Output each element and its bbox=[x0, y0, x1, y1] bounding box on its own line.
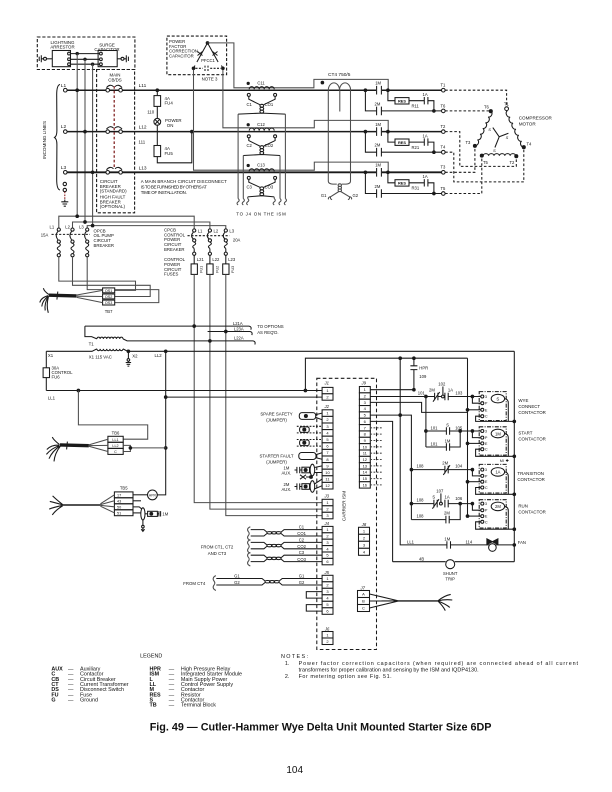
svg-text:CONTACTOR: CONTACTOR bbox=[517, 477, 544, 482]
PFCC feed row1 (apex) bbox=[208, 43, 389, 89]
junction dots phase taps bbox=[76, 89, 79, 92]
terminal block TB6 bbox=[108, 431, 123, 455]
svg-text:G2: G2 bbox=[353, 193, 359, 198]
svg-text:S: S bbox=[432, 495, 435, 500]
svg-text:108: 108 bbox=[417, 498, 425, 503]
svg-text:4B: 4B bbox=[419, 556, 424, 561]
svg-text:101: 101 bbox=[418, 391, 426, 396]
resistor R31 bbox=[388, 172, 395, 183]
connector J6 bbox=[322, 626, 333, 644]
svg-text:T6: T6 bbox=[484, 105, 490, 110]
wire C contactor 1M to LL2 rail bbox=[476, 449, 515, 456]
coil 2M return bbox=[505, 506, 509, 529]
junction dots PFCC feeds on phases bbox=[387, 89, 390, 92]
label FROM CT4 bbox=[183, 581, 206, 586]
svg-text:C: C bbox=[362, 606, 365, 611]
TB6 cable claw bbox=[46, 437, 60, 461]
branch to 2M row3 bbox=[365, 172, 376, 193]
svg-text:P: P bbox=[485, 474, 488, 478]
CT4 primary loop bbox=[328, 90, 350, 181]
svg-text:TB7: TB7 bbox=[105, 309, 113, 314]
svg-text:ARRESTOR: ARRESTOR bbox=[50, 44, 74, 49]
svg-text:TRIP: TRIP bbox=[445, 576, 455, 581]
contact 2M row2 bbox=[375, 143, 382, 157]
terminal T2 bbox=[442, 130, 446, 134]
transformer T1 secondary leads / wire X1-115VAC bbox=[46, 349, 514, 351]
svg-text:OS2: OS2 bbox=[105, 295, 112, 299]
svg-text:CONTACTOR: CONTACTOR bbox=[518, 437, 545, 442]
connector J4 bbox=[322, 521, 333, 565]
svg-text:10: 10 bbox=[363, 444, 368, 449]
svg-text:X1 115 VAC: X1 115 VAC bbox=[89, 355, 112, 360]
feed wire pole3 bbox=[87, 226, 226, 229]
connector J3 bbox=[322, 494, 333, 519]
svg-text:2M: 2M bbox=[429, 388, 435, 393]
wire pair C12 to J4 bbox=[243, 156, 280, 199]
2M aux contact bbox=[282, 482, 292, 492]
coil 1A return bbox=[505, 472, 509, 494]
lightning arrestor / surge capacitor enclosure (dashed) bbox=[37, 37, 135, 70]
trip tie (red dashed) bbox=[113, 86, 115, 168]
label CONTROL POWER CIRCUIT FUSES bbox=[164, 257, 186, 276]
svg-text:START: START bbox=[518, 431, 532, 436]
svg-text:C: C bbox=[485, 486, 488, 490]
CT4 secondary bbox=[328, 182, 350, 185]
motor winding T5-T2 bbox=[483, 154, 515, 156]
svg-text:TO J4 ON THE ISM: TO J4 ON THE ISM bbox=[236, 212, 286, 217]
svg-text:C: C bbox=[114, 450, 117, 454]
wire E contactor S bbox=[468, 409, 481, 411]
wires OPCB to TB7 bbox=[59, 257, 136, 291]
label WYE CONNECT CONTACTOR bbox=[518, 398, 545, 415]
svg-text:10: 10 bbox=[325, 470, 330, 475]
svg-text:LL2: LL2 bbox=[112, 444, 118, 448]
svg-text:T1: T1 bbox=[504, 101, 510, 106]
svg-text:1.: 1. bbox=[285, 661, 290, 667]
wire 101 row A (J9-2) bbox=[370, 396, 441, 398]
wire 1A to T5 line bbox=[428, 183, 434, 194]
svg-text:15: 15 bbox=[363, 476, 368, 481]
interconnect wires arrestor-surge bbox=[70, 54, 99, 65]
svg-text:CO1: CO1 bbox=[265, 102, 274, 107]
label COMPRESSOR MOTOR bbox=[519, 116, 553, 127]
svg-text:CAPACITOR: CAPACITOR bbox=[169, 53, 194, 58]
svg-text:103: 103 bbox=[455, 391, 463, 396]
svg-text:T1: T1 bbox=[89, 342, 95, 347]
svg-text:(OPTIONAL): (OPTIONAL) bbox=[100, 204, 126, 209]
wire FU5 return to L2 bbox=[157, 133, 192, 163]
motor node T2 bbox=[515, 155, 518, 158]
svg-text:C: C bbox=[485, 448, 488, 452]
svg-text:(JUMPER): (JUMPER) bbox=[266, 418, 287, 423]
svg-text:L23A: L23A bbox=[234, 327, 244, 332]
contact 2M (NC) row A bbox=[433, 392, 440, 402]
svg-text:S: S bbox=[446, 423, 449, 428]
connector J1 bbox=[322, 381, 333, 401]
option jumper rows 5-6 (dashed) bbox=[297, 440, 322, 447]
contact 1A row3 bbox=[409, 179, 428, 186]
svg-text:L12: L12 bbox=[139, 125, 147, 131]
OPCB trip tie dashed + 15A bbox=[52, 233, 91, 235]
twisted pair C2/CO2 to J4 bbox=[248, 537, 323, 553]
connector J9 bbox=[359, 381, 370, 489]
svg-text:Terminal Block: Terminal Block bbox=[181, 703, 216, 709]
svg-text:J7: J7 bbox=[360, 586, 366, 591]
legend bbox=[51, 653, 242, 708]
svg-text:Power factor correction capaci: Power factor correction capacitors (when… bbox=[299, 661, 579, 667]
label OPCB OIL PUMP CIRCUIT BREAKER bbox=[94, 228, 115, 247]
svg-text:LL2: LL2 bbox=[155, 353, 163, 358]
svg-text:CO2: CO2 bbox=[265, 143, 274, 148]
wire J9-5 / bus 108 bbox=[370, 415, 411, 519]
label LIGHTNING ARRESTOR bbox=[50, 40, 75, 50]
wire L23 vertical to J3-3 bbox=[226, 274, 322, 515]
terminal L3 bbox=[64, 171, 68, 175]
row C contact 1M (parallel) bbox=[426, 431, 460, 451]
CT4 polarity dot bbox=[321, 81, 324, 84]
svg-text:P: P bbox=[485, 509, 488, 513]
svg-text:CONTACTOR: CONTACTOR bbox=[518, 410, 545, 415]
fuse FU5 bbox=[154, 146, 161, 157]
svg-text:L1: L1 bbox=[50, 224, 55, 229]
svg-text:L22: L22 bbox=[212, 257, 220, 262]
contact 1A row1 bbox=[409, 97, 428, 104]
svg-text:R11: R11 bbox=[412, 104, 420, 109]
TB5 harness wires bbox=[100, 495, 114, 513]
motor winding T6-T3 bbox=[475, 111, 493, 146]
svg-text:LEGEND: LEGEND bbox=[140, 653, 162, 659]
label TO OPTIONS AS REQ'D. bbox=[257, 324, 284, 335]
svg-text:L13: L13 bbox=[139, 165, 147, 171]
wire J9-6 to shunt trip bbox=[370, 421, 392, 561]
svg-text:RES: RES bbox=[398, 99, 406, 104]
svg-text:G2: G2 bbox=[299, 580, 305, 585]
power-on lamp bbox=[154, 118, 161, 125]
transformer T1 primary lead left bbox=[85, 326, 97, 339]
svg-text:3: 3 bbox=[485, 395, 487, 399]
motor lead T6 (dashed) bbox=[445, 110, 490, 112]
jumper 3-P contactor S bbox=[472, 397, 480, 404]
svg-text:TRANSITION: TRANSITION bbox=[517, 471, 544, 476]
breaker pole L3 bbox=[106, 171, 110, 175]
feed wire pole2 bbox=[73, 222, 210, 229]
svg-text:L22A: L22A bbox=[234, 336, 244, 341]
motor terminal T1 bbox=[505, 107, 509, 111]
svg-text:3: 3 bbox=[485, 502, 487, 506]
svg-text:14: 14 bbox=[363, 470, 368, 475]
svg-text:J8: J8 bbox=[361, 522, 367, 527]
1M aux contact bbox=[282, 466, 292, 476]
svg-text:BREAKER: BREAKER bbox=[94, 243, 115, 248]
svg-text:C3: C3 bbox=[247, 184, 253, 189]
transformer T1 primary winding bbox=[97, 337, 123, 339]
row2 junction dot bbox=[364, 130, 367, 133]
svg-text:1A: 1A bbox=[445, 495, 450, 500]
svg-text:2M: 2M bbox=[444, 511, 450, 516]
svg-text:S: S bbox=[506, 135, 509, 140]
svg-text:104: 104 bbox=[286, 765, 303, 776]
LL2 rail right bbox=[513, 351, 515, 561]
svg-text:2.: 2. bbox=[285, 674, 290, 680]
svg-text:TIME OF INSTALLATION.: TIME OF INSTALLATION. bbox=[141, 190, 187, 195]
terminal block TB5 bbox=[114, 486, 133, 516]
fuse FU6 30A control bbox=[45, 351, 47, 368]
fan feed from LL1 bbox=[400, 358, 447, 545]
terminal T5 bbox=[442, 192, 446, 196]
branch to 2M row2 bbox=[365, 132, 376, 153]
svg-text:101: 101 bbox=[431, 442, 439, 447]
junction dots on phase drop verticals bbox=[76, 215, 79, 218]
J7 harness wires bbox=[370, 594, 399, 608]
note A MAIN BRANCH CIRCUIT DISCONNECT bbox=[141, 179, 227, 195]
svg-text:T4: T4 bbox=[527, 142, 533, 147]
contact 2M row3 bbox=[375, 184, 382, 198]
svg-text:LL1: LL1 bbox=[112, 438, 118, 442]
svg-text:RES: RES bbox=[398, 181, 406, 186]
main CB/DS enclosure (dashed) bbox=[97, 70, 135, 213]
wire LL2 main bbox=[166, 396, 322, 398]
label L22A bbox=[234, 336, 244, 341]
oil pump interlock loop bbox=[133, 507, 142, 509]
contact 1A row A bbox=[444, 393, 448, 401]
svg-text:CO1: CO1 bbox=[297, 531, 306, 536]
svg-text:1M: 1M bbox=[495, 431, 501, 436]
svg-text:1M: 1M bbox=[375, 163, 381, 168]
svg-text:CO2: CO2 bbox=[297, 544, 306, 549]
svg-text:SPARE SAFETY: SPARE SAFETY bbox=[260, 412, 292, 417]
svg-text:1M: 1M bbox=[375, 81, 381, 86]
wire break squiggles bbox=[237, 199, 287, 205]
svg-text:FU6: FU6 bbox=[52, 375, 61, 380]
svg-text:transformers for proper calibr: transformers for proper calibration and … bbox=[299, 667, 479, 673]
J5 jumper loops bbox=[306, 592, 322, 612]
transformer T1 primary lead right / wire L22A bbox=[123, 339, 255, 345]
svg-text:OS3: OS3 bbox=[105, 301, 112, 305]
wire C contactor 2M to LL2 rail bbox=[476, 522, 515, 529]
svg-text:B: B bbox=[362, 599, 365, 604]
resistor R11 bbox=[388, 90, 395, 101]
svg-text:L2: L2 bbox=[65, 224, 70, 229]
svg-text:C1: C1 bbox=[299, 525, 305, 530]
motor lead T1 (dashed) bbox=[445, 90, 507, 106]
row1 junction dot (2M branch) bbox=[364, 89, 367, 92]
svg-text:BREAKER: BREAKER bbox=[164, 247, 185, 252]
current transformer C13 bbox=[247, 163, 277, 197]
svg-text:S: S bbox=[496, 396, 499, 401]
wire 103 to contactor S bbox=[448, 396, 481, 398]
svg-text:G1: G1 bbox=[321, 193, 327, 198]
wire 1A to T6 line bbox=[428, 101, 434, 111]
svg-text:OS1: OS1 bbox=[105, 289, 112, 293]
wire L21 vertical to J3-1 bbox=[194, 274, 322, 502]
drop wires to phases L1 L2 L3 bbox=[77, 54, 92, 173]
svg-text:20A: 20A bbox=[233, 238, 241, 243]
wire L23A bbox=[208, 332, 253, 336]
wire C contactor 1A to LL2 rail bbox=[476, 488, 515, 495]
svg-text:—: — bbox=[68, 698, 74, 704]
node X2 bbox=[127, 350, 130, 353]
svg-text:P: P bbox=[485, 402, 488, 406]
connector J8 bbox=[359, 522, 370, 555]
svg-text:C12: C12 bbox=[257, 122, 265, 127]
fuse FU4 branch tap bbox=[156, 89, 159, 92]
row3 junction dot bbox=[364, 171, 367, 174]
svg-text:LL1: LL1 bbox=[48, 396, 56, 401]
CPCB trip tie dashed + 20A bbox=[188, 235, 230, 237]
fan row: 1M contact bbox=[447, 541, 514, 548]
svg-text:T5: T5 bbox=[441, 186, 447, 191]
svg-text:1A: 1A bbox=[423, 133, 428, 138]
svg-text:CT4 750/5: CT4 750/5 bbox=[328, 72, 351, 78]
wire J9-3 to E-rail bbox=[370, 402, 467, 412]
svg-text:L3: L3 bbox=[79, 224, 84, 229]
svg-text:T5: T5 bbox=[483, 160, 489, 165]
row B contact S bbox=[426, 427, 473, 435]
wire phase L3 main bbox=[67, 171, 376, 173]
motor winding T1-T4 bbox=[505, 111, 524, 148]
terminal T3 bbox=[442, 171, 446, 175]
svg-text:C3: C3 bbox=[299, 550, 305, 555]
svg-text:1M: 1M bbox=[444, 536, 450, 541]
fuse FU4 bbox=[154, 96, 161, 107]
label TO J4 ON THE ISM bbox=[236, 212, 286, 217]
CT4 leads G1 G2 bbox=[331, 192, 350, 197]
row F contact 2M (parallel) bbox=[411, 504, 460, 524]
contactor 1M (start) bbox=[460, 427, 506, 455]
fan motor bbox=[487, 539, 498, 545]
svg-text:COMPRESSOR: COMPRESSOR bbox=[519, 116, 553, 121]
label CT4 750/5 bbox=[328, 72, 351, 78]
starter fault jumper bbox=[299, 453, 316, 460]
surge cap terminals bbox=[100, 52, 103, 55]
svg-text:SHUNT: SHUNT bbox=[443, 571, 458, 576]
current transformer C11 bbox=[238, 81, 285, 115]
svg-text:1A: 1A bbox=[448, 388, 453, 393]
svg-text:For metering option see Fig. 5: For metering option see Fig. 51. bbox=[299, 674, 392, 680]
svg-text:E: E bbox=[485, 442, 488, 446]
shunt trip row bbox=[393, 561, 515, 563]
notes bbox=[281, 654, 579, 680]
resistor R21 bbox=[388, 132, 395, 143]
contact 1M row2 bbox=[375, 122, 381, 136]
motor node T6 bbox=[489, 110, 492, 113]
svg-text:2M: 2M bbox=[375, 101, 381, 106]
capacitor bank PFCC1 (delta) bbox=[197, 43, 218, 62]
twisted pair C3/CO3 to J4 bbox=[248, 550, 323, 566]
TB5 trunk wire bbox=[63, 504, 101, 506]
svg-text:AUX.: AUX. bbox=[282, 487, 292, 492]
svg-text:2M: 2M bbox=[495, 504, 501, 509]
wire 2M to T4 bbox=[381, 151, 441, 153]
test point 102 bbox=[442, 395, 445, 398]
svg-text:1M: 1M bbox=[445, 439, 451, 444]
row E contacts S,1A + test point 107 bbox=[411, 499, 439, 509]
svg-text:—: — bbox=[169, 703, 175, 709]
control power fuse FU1 bbox=[193, 255, 195, 264]
label START CONTACTOR bbox=[518, 431, 545, 442]
labels L11 L12 L13 bbox=[139, 83, 147, 171]
svg-text:TO OPTIONS: TO OPTIONS bbox=[257, 324, 284, 329]
svg-text:J4: J4 bbox=[324, 521, 330, 526]
svg-text:L23: L23 bbox=[228, 257, 236, 262]
svg-text:2M: 2M bbox=[442, 461, 448, 466]
svg-text:109: 109 bbox=[419, 374, 427, 379]
contact 1M row1 bbox=[375, 81, 381, 95]
relay contact HPR 109 bbox=[410, 358, 417, 390]
label MI bbox=[500, 459, 504, 463]
svg-text:G: G bbox=[51, 698, 55, 704]
wire pair C11 to J4 bbox=[238, 114, 285, 199]
contactor 1A (transition) bbox=[479, 464, 506, 493]
wire phase L2 main bbox=[67, 131, 376, 133]
contact 1M row3 bbox=[375, 163, 381, 177]
wire 43 stub bbox=[133, 500, 141, 502]
jumper 3-P contactor 2M bbox=[472, 504, 480, 511]
svg-text:INCOMING LINES: INCOMING LINES bbox=[42, 121, 47, 159]
svg-text:AND CT3: AND CT3 bbox=[208, 551, 227, 556]
svg-text:1A: 1A bbox=[495, 470, 500, 475]
label CARRIER ISM (rotated) bbox=[342, 491, 347, 521]
motor node T5 bbox=[480, 154, 483, 157]
svg-text:X1: X1 bbox=[48, 353, 54, 358]
svg-text:T2: T2 bbox=[441, 124, 447, 129]
feed wire to OPCB/CPCB pole1 bbox=[59, 216, 194, 229]
svg-text:C13: C13 bbox=[257, 163, 265, 168]
svg-text:L1: L1 bbox=[61, 83, 67, 89]
J9 spare stubs (dashed) bbox=[370, 428, 382, 485]
node 110 bbox=[147, 109, 155, 114]
terminal T1 bbox=[442, 88, 446, 92]
svg-text:WYE: WYE bbox=[518, 398, 528, 403]
svg-text:TB6: TB6 bbox=[112, 431, 120, 436]
label RUN CONTACTOR bbox=[518, 503, 545, 514]
svg-text:CO3: CO3 bbox=[297, 557, 306, 562]
svg-text:107: 107 bbox=[436, 488, 444, 493]
terminal block TB7 bbox=[103, 288, 115, 314]
svg-text:R21: R21 bbox=[412, 145, 420, 150]
svg-text:C2: C2 bbox=[247, 143, 253, 148]
svg-text:FROM CT1, CT2: FROM CT1, CT2 bbox=[201, 545, 234, 550]
svg-text:E: E bbox=[485, 515, 488, 519]
surge capacitor box bbox=[98, 51, 117, 67]
X2 ground bbox=[127, 351, 129, 358]
PFCC feed row2 bbox=[223, 70, 388, 131]
wire 1A to T4 line bbox=[428, 142, 434, 152]
svg-text:J1: J1 bbox=[324, 381, 329, 386]
svg-text:S: S bbox=[493, 148, 496, 153]
row D contact 2M (NC) bbox=[411, 465, 472, 475]
wire E contactor 2M bbox=[468, 515, 481, 517]
svg-text:T1: T1 bbox=[441, 83, 447, 88]
svg-text:12: 12 bbox=[325, 483, 330, 488]
svg-text:T3: T3 bbox=[441, 165, 447, 170]
svg-text:A: A bbox=[362, 592, 365, 597]
TB6 harness wires bbox=[89, 439, 108, 451]
svg-text:C: C bbox=[485, 415, 488, 419]
svg-text:A MAIN BRANCH CIRCUIT DISCONNE: A MAIN BRANCH CIRCUIT DISCONNECT bbox=[141, 179, 227, 184]
breaker pole L1 bbox=[106, 88, 110, 92]
ground dashed link (red) bbox=[64, 192, 66, 200]
caption bbox=[150, 722, 492, 734]
svg-text:50: 50 bbox=[117, 505, 121, 509]
terminal L1 bbox=[64, 88, 68, 92]
breaker pole L2 bbox=[106, 130, 110, 134]
wire C contactor S to LL2 rail bbox=[476, 416, 515, 421]
wire L22 vertical to J3-2 bbox=[210, 274, 322, 509]
TB6 wires LL2 and C bbox=[123, 445, 166, 451]
label CIRCUIT BREAKER (STANDARD) HIGH FAULT BREAKER (OPTIONAL) bbox=[100, 179, 127, 209]
OPCB labels L1 L2 L3 bbox=[50, 224, 85, 229]
